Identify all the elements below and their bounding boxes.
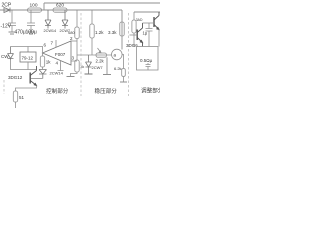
wire rail drop to meter: [121, 10, 123, 50]
svg-text:1μ: 1μ: [143, 31, 148, 36]
resistor R8: [132, 12, 136, 47]
svg-text:1k: 1k: [80, 64, 84, 69]
resistor R4 1.2k: [90, 10, 94, 55]
wire loop bottom: [11, 60, 37, 70]
svg-text:79-12: 79-12: [22, 56, 34, 61]
svg-text:2CW14: 2CW14: [50, 71, 64, 76]
zener D2 2CW: [62, 10, 68, 29]
svg-text:2CP: 2CP: [2, 3, 12, 9]
dashed divider mid: [80, 13, 82, 96]
capacitor C4 1u: [146, 23, 153, 47]
resistor R1 100: [28, 8, 42, 12]
svg-text:470μ: 470μ: [15, 30, 26, 36]
load box 0.5 ohm: [137, 47, 159, 71]
ground node: [103, 57, 111, 74]
svg-text:0.5Ωμ: 0.5Ωμ: [140, 58, 153, 63]
dashed divider left: [3, 80, 5, 94]
pin 6 output wire: [11, 47, 43, 54]
svg-text:F007: F007: [55, 52, 66, 57]
resistor R3 680: [75, 10, 79, 60]
potentiometer W1: [67, 60, 80, 77]
svg-text:3AD: 3AD: [136, 18, 143, 22]
svg-text:1k: 1k: [46, 60, 52, 65]
pin 7: [55, 40, 57, 48]
svg-text:稳压部分: 稳压部分: [95, 87, 118, 95]
svg-text:-12V: -12V: [1, 24, 12, 30]
regulator U2 79-12 box: [27, 47, 29, 53]
svg-text:680: 680: [68, 31, 74, 35]
resistor R7 51: [13, 91, 17, 102]
svg-text:6.2k: 6.2k: [114, 66, 122, 71]
zener D4 2CW: [39, 70, 47, 79]
op-amp U1 F007: [43, 41, 72, 65]
zener D1 2CW: [45, 10, 51, 29]
zener D3 CW: [8, 47, 14, 61]
svg-text:3.3k: 3.3k: [108, 30, 117, 35]
svg-text:100μ: 100μ: [26, 30, 37, 36]
wire Q3 emitter to load: [158, 30, 160, 47]
transistor Q2 3DG6: [130, 23, 143, 47]
svg-text:2CW14: 2CW14: [44, 29, 57, 33]
resistor R5 3.3k: [120, 22, 124, 36]
wire main rail: [0, 9, 122, 11]
dashed divider right: [128, 13, 130, 96]
capacitor C2 100u: [27, 10, 35, 34]
resistor R6 1k: [40, 53, 44, 69]
resistor R9 6.2k: [120, 55, 127, 83]
capacitor C5 in load box: [146, 63, 151, 70]
meter M1: [112, 49, 123, 60]
svg-text:控制部分: 控制部分: [46, 87, 69, 95]
wire sampling line: [77, 54, 112, 56]
wire right box top: [134, 11, 160, 13]
potentiometer W2 2.2k: [96, 48, 107, 57]
svg-text:3DG12: 3DG12: [8, 75, 23, 80]
svg-text:2CW7: 2CW7: [92, 65, 104, 70]
capacitor C1 470u: [8, 10, 16, 34]
wire stub to top rail: [43, 3, 45, 10]
svg-text:100: 100: [30, 3, 38, 9]
transistor Q1 3DG12: [30, 66, 36, 86]
transistor Q3 3AD: [143, 12, 160, 30]
svg-text:调整部分: 调整部分: [141, 87, 160, 95]
svg-text:51: 51: [19, 95, 25, 100]
svg-text:CW: CW: [1, 54, 9, 59]
pin 3: [71, 60, 77, 62]
wire zener to base: [31, 78, 43, 80]
wire emitter to R7: [16, 86, 37, 92]
svg-text:1.2k: 1.2k: [95, 30, 104, 35]
diode 2CP: [4, 8, 10, 13]
zener D5 2CW: [85, 55, 93, 74]
svg-text:2.2k: 2.2k: [96, 59, 105, 64]
svg-text:620: 620: [56, 3, 64, 9]
pin 2: [71, 40, 77, 42]
wire top rail: [44, 2, 160, 4]
pin 4: [58, 61, 64, 71]
resistor R2 620: [53, 8, 67, 12]
